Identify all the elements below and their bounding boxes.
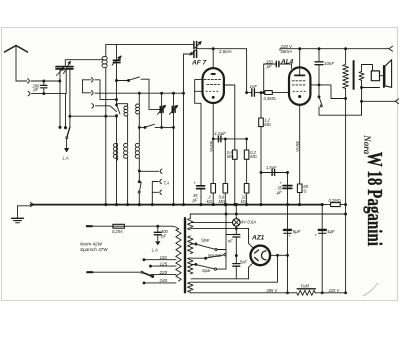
wire varcap right section down bbox=[65, 69, 67, 94]
field coil Feld bbox=[297, 289, 316, 296]
capacitor 1,5uF tone bbox=[261, 170, 289, 176]
coil L5 big bbox=[135, 127, 140, 181]
bottom supply bus bbox=[190, 292, 345, 294]
terminal right top bbox=[389, 46, 393, 51]
wire switch S4 to trimmer row bbox=[148, 79, 150, 109]
wire AZ1 filament bottom bbox=[249, 263, 254, 279]
capacitor 10nF bbox=[315, 49, 323, 98]
svg-text:AZ1: AZ1 bbox=[251, 235, 265, 242]
label 150pF bbox=[266, 60, 274, 69]
connector pickup mid bbox=[139, 169, 162, 174]
resistor 0,3M grid AL4 bbox=[263, 91, 290, 95]
wire varcap left section down to node bbox=[59, 69, 61, 81]
fuse 0,25A bbox=[92, 224, 179, 229]
svg-text:AL4: AL4 bbox=[280, 59, 294, 66]
tube AL4 bbox=[289, 49, 310, 105]
label 400pF bbox=[160, 229, 168, 238]
trimmer D grid AF7 bbox=[190, 42, 201, 58]
svg-text:4V 0,6A: 4V 0,6A bbox=[241, 220, 257, 225]
resistor 65ohm bbox=[297, 184, 302, 205]
wire 220V supply line bbox=[280, 48, 389, 51]
svg-text:36mA: 36mA bbox=[281, 49, 293, 54]
wire trimmer D to grid column bbox=[184, 54, 194, 205]
wire varcap col to switch bbox=[59, 81, 67, 129]
label 1,2M bbox=[264, 118, 271, 127]
svg-text:pF: pF bbox=[266, 64, 272, 69]
wire AL4 side lead to output column bbox=[310, 84, 345, 99]
coil L4 big bbox=[124, 143, 128, 204]
wire B+ field column bbox=[345, 89, 347, 294]
label 0,6M screen bbox=[227, 150, 234, 159]
resistor 2k cathode bbox=[211, 184, 216, 194]
switch S1 wave trap bbox=[65, 69, 71, 152]
svg-text:5nF: 5nF bbox=[240, 259, 248, 264]
label 35uF plus bbox=[193, 181, 199, 203]
svg-text:pF: pF bbox=[33, 87, 39, 92]
resistor 10k divider bbox=[244, 184, 249, 205]
switch S6 tone bbox=[318, 96, 362, 115]
transformer winding W1 bbox=[188, 214, 193, 230]
connector third input bbox=[92, 104, 117, 112]
label 35uF plus AL4 bbox=[277, 180, 283, 194]
wire gram top to mesh bbox=[95, 80, 117, 100]
trimmer B bbox=[112, 56, 121, 65]
label 200pF bbox=[32, 83, 41, 92]
voltage selector lever bbox=[92, 271, 154, 277]
wire to rectifier filament top bbox=[248, 228, 250, 243]
label 10k bbox=[241, 195, 247, 204]
output transformer primary bbox=[343, 49, 349, 100]
terminal speaker bbox=[395, 99, 398, 104]
resistor 0,6M divider bbox=[223, 139, 228, 205]
speaker bbox=[371, 60, 391, 88]
wire AF7 anode feed y48.7 bbox=[197, 48, 248, 94]
label 2k bbox=[207, 195, 212, 204]
svg-text:Feld: Feld bbox=[301, 284, 310, 289]
svg-text:225 V: 225 V bbox=[328, 288, 341, 293]
antenna connector bottom bbox=[28, 91, 30, 96]
switch Spar 1 bbox=[191, 243, 226, 251]
svg-text:T.A: T.A bbox=[163, 181, 169, 186]
svg-text:0,2MΩ: 0,2MΩ bbox=[329, 198, 341, 203]
capacitor 8uF bbox=[284, 205, 291, 293]
svg-text:10nF: 10nF bbox=[324, 61, 334, 66]
capacitor 150pF bbox=[264, 61, 292, 92]
wire heater line y214 bbox=[191, 213, 346, 215]
resistor 0,2M avc bbox=[244, 138, 249, 184]
capacitor 1,5uF coupling bbox=[213, 136, 246, 142]
trimmer G bbox=[157, 105, 165, 114]
tap 220 bbox=[151, 274, 176, 276]
svg-text:MΩ: MΩ bbox=[250, 154, 257, 159]
coil L2 bbox=[117, 104, 128, 144]
coil L3 bbox=[136, 93, 140, 127]
wire AZ1 filament top bbox=[249, 243, 254, 248]
switch Normal bbox=[191, 254, 226, 260]
label 8uF plus bbox=[288, 229, 300, 239]
wire AL4 cathode column bbox=[299, 105, 301, 184]
capacitor 400pF light antenna bbox=[154, 226, 161, 244]
wire heater return line bbox=[191, 278, 249, 280]
svg-text:kΩ: kΩ bbox=[207, 199, 212, 204]
connector T.A pair bbox=[152, 179, 161, 204]
switch S3 bbox=[138, 124, 173, 128]
svg-text:240: 240 bbox=[159, 278, 168, 283]
capacitor 35uF AF7 cathode bbox=[197, 186, 205, 205]
transformer winding W3 bbox=[188, 258, 193, 274]
transformer winding W2 bbox=[188, 236, 193, 254]
wire antenna to node bbox=[31, 80, 61, 82]
tap 110 bbox=[143, 259, 176, 261]
ground bus bbox=[31, 204, 323, 206]
svg-text:nF: nF bbox=[228, 239, 233, 244]
resistor 0,2M output bbox=[321, 203, 347, 207]
wire trimmer G column bbox=[161, 92, 163, 127]
switch S5 bbox=[138, 181, 141, 205]
wire W4 top line bbox=[191, 255, 278, 282]
tap 240 bbox=[143, 282, 176, 284]
capacitor 4uF bbox=[319, 205, 326, 293]
svg-text:L.A: L.A bbox=[152, 248, 158, 253]
tuning capacitor C2 bbox=[56, 61, 73, 75]
mains prong 1 bbox=[87, 225, 92, 227]
svg-text:285 V: 285 V bbox=[266, 288, 279, 293]
switch S4 band bbox=[128, 77, 150, 82]
wire AZ1 output bbox=[271, 254, 289, 256]
svg-text:4µF: 4µF bbox=[327, 229, 335, 234]
svg-text:µF: µF bbox=[193, 197, 198, 202]
wire AF7 cathode column bbox=[212, 103, 214, 184]
tap 125 bbox=[150, 265, 177, 267]
capacitor 1nF coupling bbox=[247, 89, 265, 96]
mains prong 2 bbox=[87, 271, 92, 273]
coil L1 antenna bbox=[102, 45, 107, 205]
output transformer core bbox=[353, 61, 355, 89]
svg-text:Sparsch 37W: Sparsch 37W bbox=[80, 247, 108, 252]
wire lower antenna line bbox=[32, 93, 66, 95]
wire varcap top to coil tap bbox=[65, 60, 102, 67]
wire top bus left y44.6 bbox=[106, 44, 194, 46]
svg-text:220 V: 220 V bbox=[280, 44, 294, 49]
transformer core bbox=[184, 218, 186, 292]
svg-text:kΩ: kΩ bbox=[241, 199, 246, 204]
svg-text:90mA: 90mA bbox=[209, 141, 214, 152]
svg-text:pF: pF bbox=[160, 234, 166, 239]
resistor 0,6M screen bbox=[224, 85, 237, 205]
wire AF7 side lead bbox=[195, 80, 203, 185]
svg-text:1,5µF: 1,5µF bbox=[215, 131, 227, 136]
wire lamp line bbox=[192, 221, 233, 223]
svg-text:Norm 42W: Norm 42W bbox=[80, 242, 103, 247]
gram connector bracket bbox=[83, 78, 94, 96]
capacitor 35uF AL4 cathode bbox=[283, 173, 292, 205]
antenna connector top bbox=[28, 79, 30, 84]
label 220V 36mA bbox=[280, 44, 294, 54]
svg-text:L.A: L.A bbox=[63, 156, 69, 161]
svg-text:0,3MΩ: 0,3MΩ bbox=[264, 96, 276, 101]
svg-text:Ω: Ω bbox=[303, 189, 306, 194]
transformer winding W4 bbox=[188, 282, 193, 293]
wire trimmer row y109.4 bbox=[149, 108, 163, 110]
svg-text:µF: µF bbox=[277, 190, 282, 195]
svg-text:Spar: Spar bbox=[202, 268, 211, 273]
svg-text:220: 220 bbox=[159, 270, 168, 275]
node S4 feed bbox=[116, 80, 129, 82]
switch S2 bbox=[116, 104, 120, 116]
svg-text:110: 110 bbox=[160, 255, 168, 260]
coil L6 big bbox=[114, 143, 118, 160]
ground symbol bbox=[12, 206, 30, 223]
label 65ohm bbox=[303, 184, 308, 194]
svg-text:W 18 Paganini: W 18 Paganini bbox=[362, 152, 386, 246]
resistor 1,2M grid leak bbox=[259, 93, 264, 205]
tube AF7 bbox=[203, 49, 224, 103]
switch Spar 2 bbox=[191, 263, 226, 270]
svg-text:1nF: 1nF bbox=[250, 84, 258, 89]
label Norm Sparsch bbox=[80, 242, 108, 252]
wire switch bus column bbox=[225, 204, 233, 270]
trimmer H bbox=[169, 105, 177, 114]
svg-text:MΩ: MΩ bbox=[219, 199, 226, 204]
label 0,6M divider bbox=[219, 195, 226, 204]
svg-text:35mA: 35mA bbox=[295, 141, 300, 152]
tube AZ1 bbox=[250, 246, 270, 266]
svg-text:AF 7: AF 7 bbox=[191, 60, 206, 67]
svg-text:MΩ: MΩ bbox=[264, 122, 271, 127]
svg-text:MΩ: MΩ bbox=[227, 154, 234, 159]
capacitor nF upper bbox=[233, 228, 240, 237]
svg-text:Spar: Spar bbox=[201, 237, 210, 242]
svg-text:8µF: 8µF bbox=[293, 229, 301, 234]
svg-text:0,25A: 0,25A bbox=[112, 229, 123, 234]
wire trimmer B column bbox=[116, 45, 118, 205]
transformer primary winding bbox=[176, 229, 181, 282]
svg-text:1,5µF: 1,5µF bbox=[266, 165, 277, 170]
svg-text:125: 125 bbox=[160, 261, 168, 266]
wire gram bottom long grid line bbox=[95, 92, 185, 94]
antenna bbox=[5, 46, 28, 82]
label 0,2M avc bbox=[250, 150, 257, 159]
wire W1 bottom line bbox=[191, 227, 249, 229]
capacitor 5nF lower bbox=[233, 237, 240, 279]
output transformer secondary bbox=[359, 65, 380, 116]
svg-text:2,6mA: 2,6mA bbox=[218, 49, 232, 54]
pilot lamp bbox=[233, 204, 241, 229]
wire trimmer H column bbox=[173, 92, 175, 204]
wire 2k to bus bbox=[212, 193, 214, 205]
capacitor 200pF bbox=[41, 81, 47, 94]
label 4uF plus bbox=[315, 229, 335, 238]
ground bus connector bbox=[30, 202, 34, 206]
wire secondary to terminal bbox=[362, 100, 396, 102]
